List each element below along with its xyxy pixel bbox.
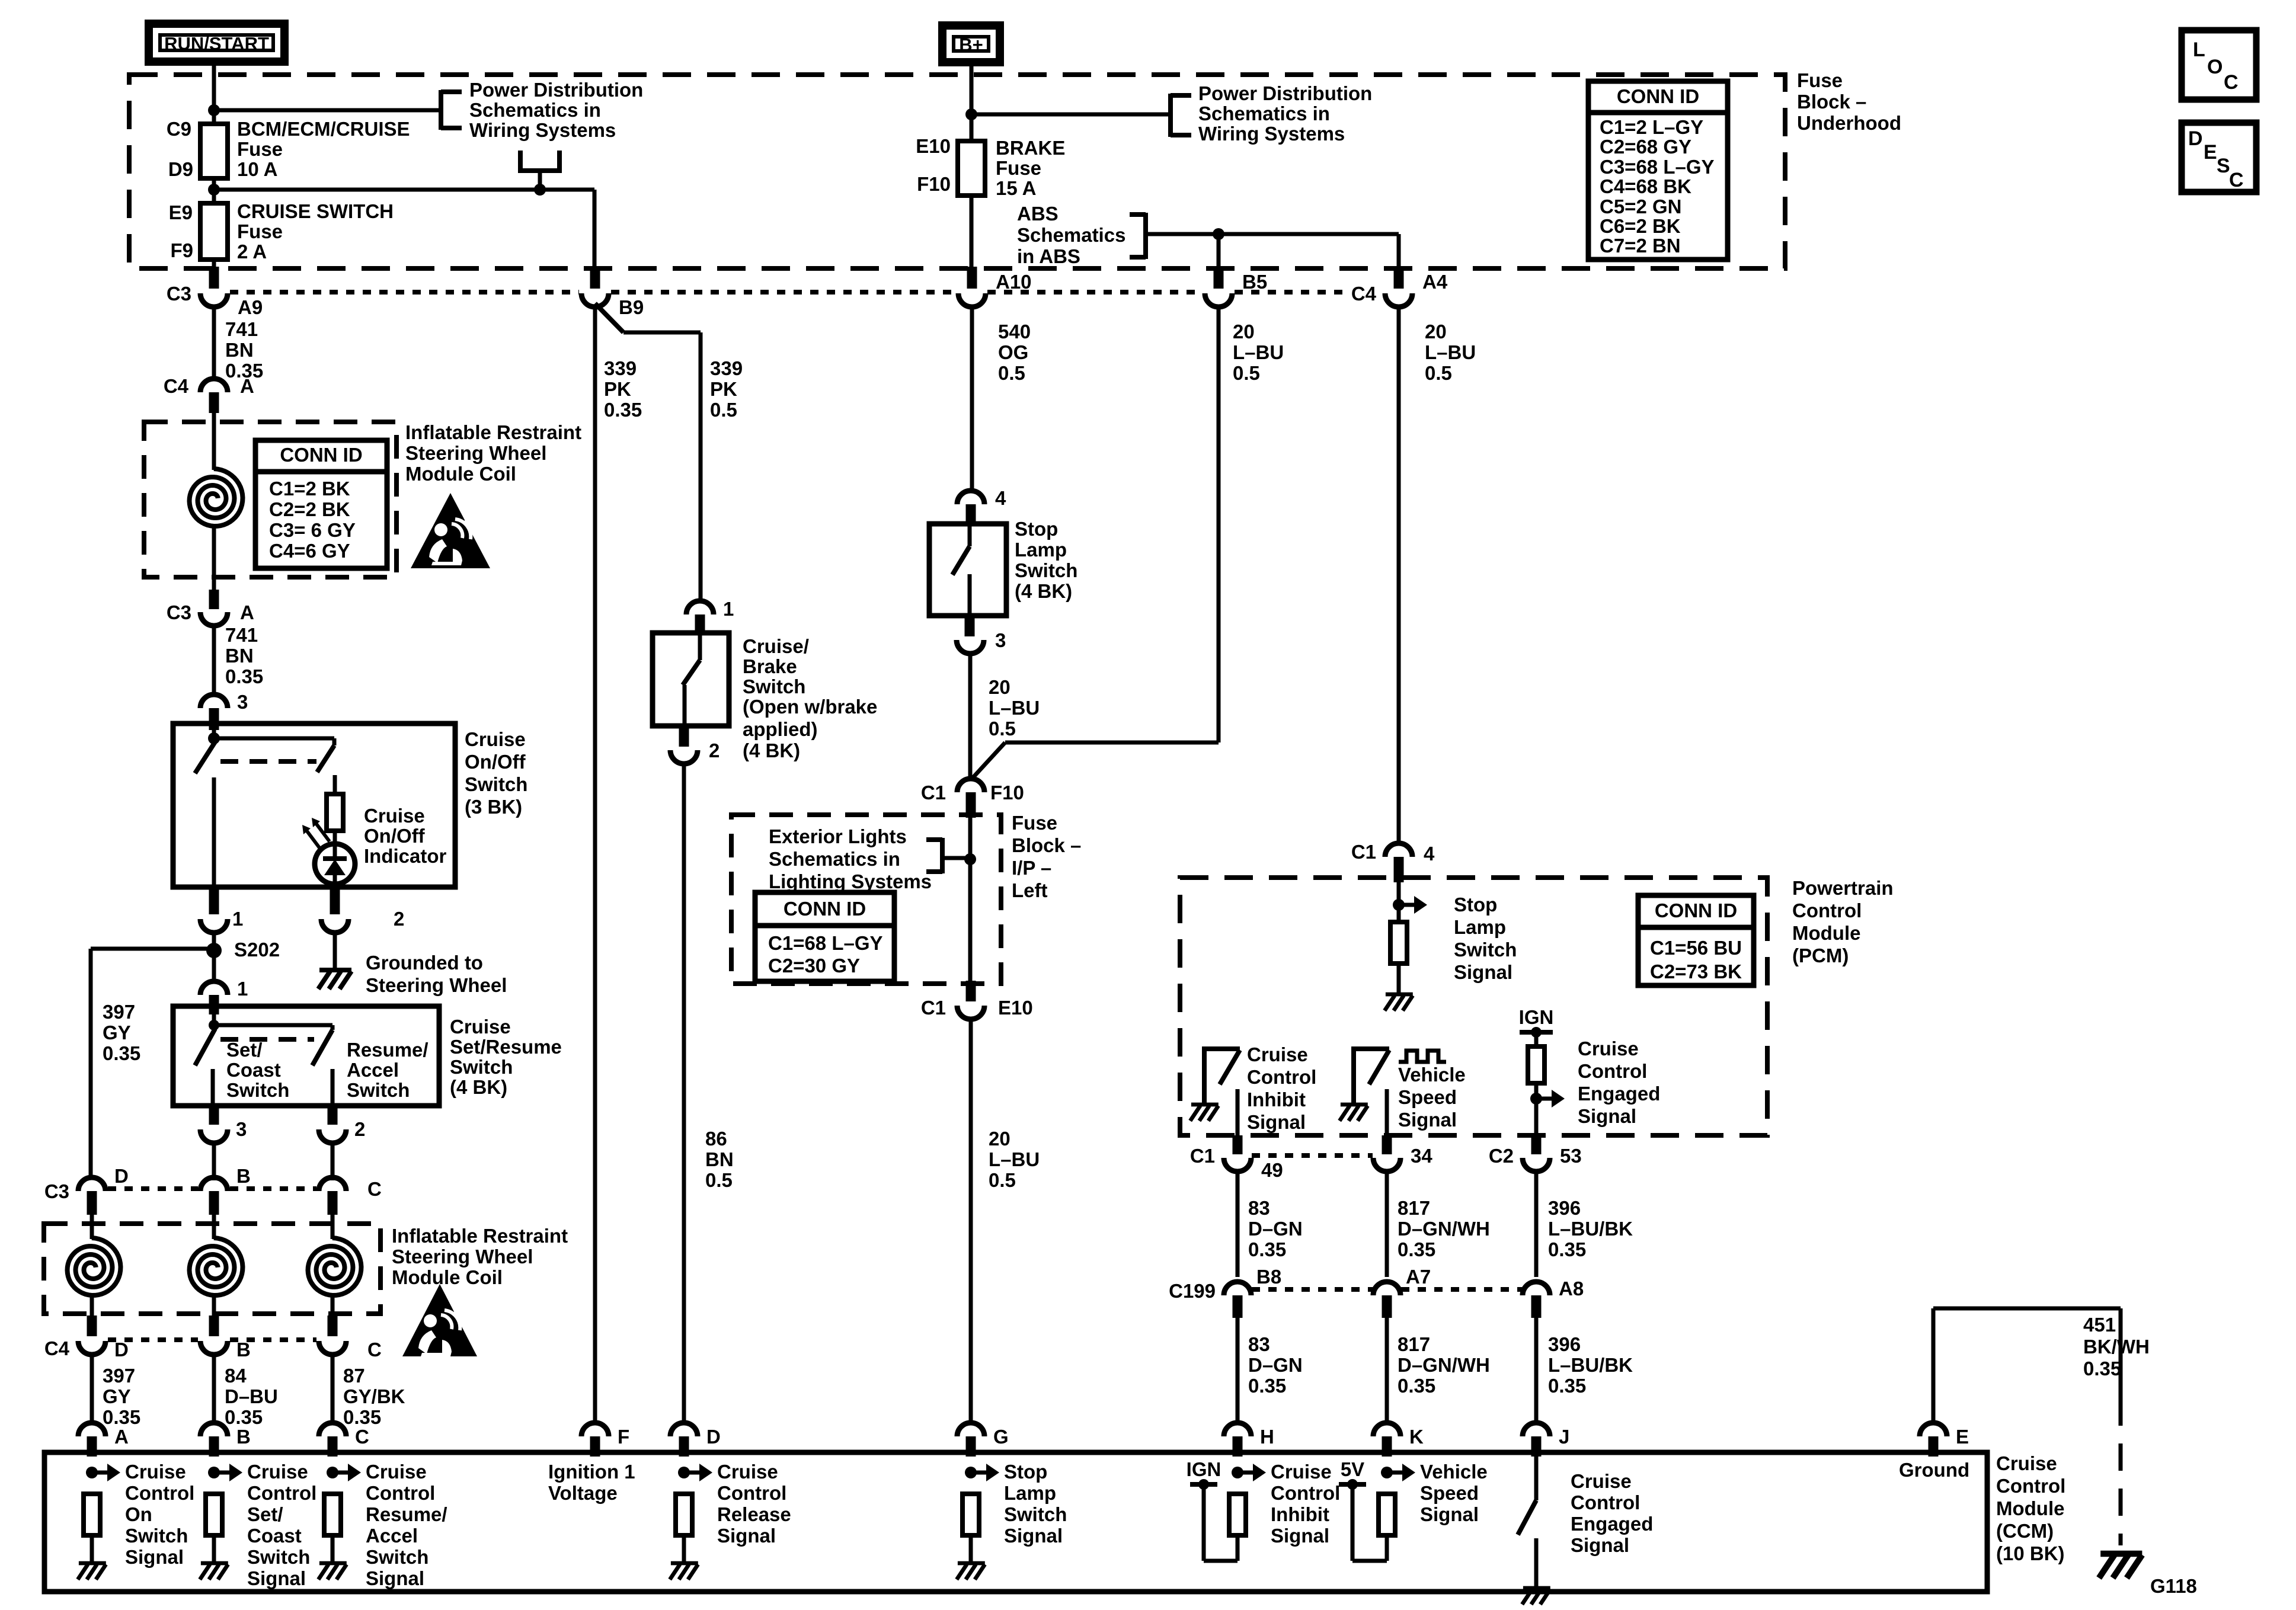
wire into set/resume bbox=[212, 1014, 216, 1026]
resistor PCM stop lamp bbox=[1390, 922, 1407, 964]
connector stub 3 stop lamp bbox=[965, 616, 975, 636]
connector stub C3-D bbox=[87, 1191, 97, 1215]
wire 86 BN to CCM D bbox=[682, 764, 686, 1425]
svg-text:Control: Control bbox=[1271, 1482, 1340, 1504]
connector stub F10 bbox=[966, 792, 976, 818]
wire IGN loop bottom bbox=[1204, 1559, 1237, 1563]
svg-text:C: C bbox=[2224, 71, 2239, 94]
node junction stop lamp signal bbox=[1393, 899, 1405, 911]
CCM cruise control set/coast switch signal circuit bbox=[208, 1467, 220, 1478]
svg-text:C: C bbox=[355, 1426, 369, 1448]
coil spiral right bbox=[308, 1238, 362, 1295]
svg-text:RUN/START: RUN/START bbox=[164, 33, 269, 54]
dotted connector line C4 row bbox=[108, 1337, 198, 1342]
connector stub C4-C bbox=[328, 1315, 338, 1336]
connector stub 2 (indicator) bbox=[330, 887, 340, 914]
svg-text:Inflatable Restraint: Inflatable Restraint bbox=[405, 421, 581, 443]
connector cup 2 (indicator) bbox=[321, 919, 348, 933]
resistor cruise indicator bbox=[327, 794, 343, 831]
svg-text:C: C bbox=[367, 1178, 382, 1200]
connector cup A10 bbox=[958, 293, 986, 307]
svg-text:PK: PK bbox=[710, 378, 737, 400]
svg-text:339: 339 bbox=[710, 357, 743, 379]
dotted connector line C3 row bbox=[108, 1186, 198, 1191]
connector stub CCM D bbox=[679, 1436, 689, 1457]
svg-text:Steering Wheel: Steering Wheel bbox=[392, 1246, 533, 1267]
svg-text:817: 817 bbox=[1398, 1333, 1430, 1355]
svg-text:0.35: 0.35 bbox=[604, 399, 642, 421]
svg-text:Fuse: Fuse bbox=[996, 157, 1041, 179]
wire 87 GY/BK to CCM C bbox=[331, 1355, 335, 1425]
svg-text:0.35: 0.35 bbox=[343, 1406, 381, 1428]
svg-text:Switch: Switch bbox=[1004, 1503, 1067, 1525]
wire B9 fork diagonal bbox=[595, 303, 623, 332]
svg-text:B+: B+ bbox=[959, 34, 983, 55]
svg-text:Resume/: Resume/ bbox=[366, 1503, 447, 1525]
svg-text:Cruise: Cruise bbox=[717, 1461, 778, 1483]
svg-text:Signal: Signal bbox=[247, 1567, 306, 1589]
svg-text:Control: Control bbox=[1571, 1491, 1640, 1513]
svg-text:Signal: Signal bbox=[1571, 1534, 1629, 1556]
wire 817 D-GN/WH lower bbox=[1385, 1318, 1389, 1425]
connector dome 3 (on/off switch) bbox=[200, 694, 228, 708]
svg-text:Fuse: Fuse bbox=[1012, 812, 1057, 834]
off-page reference bracket ABS bbox=[1143, 213, 1148, 259]
svg-text:2: 2 bbox=[354, 1118, 365, 1140]
cruise control module (CCM) box bbox=[44, 1452, 1987, 1592]
svg-text:Switch: Switch bbox=[366, 1546, 428, 1568]
LED cruise on/off indicator bbox=[315, 844, 355, 884]
svg-text:Switch: Switch bbox=[125, 1525, 188, 1547]
svg-text:D–GN/WH: D–GN/WH bbox=[1398, 1354, 1490, 1376]
connector stub 2 out bbox=[328, 1106, 338, 1125]
wire A10 down to stop lamp switch bbox=[970, 307, 974, 492]
svg-text:E9: E9 bbox=[169, 201, 193, 223]
connector stub C3/A bbox=[209, 590, 219, 609]
svg-text:CONN ID: CONN ID bbox=[784, 898, 866, 920]
ground PCM stop lamp bbox=[1386, 993, 1413, 997]
connector cup C4-C bbox=[319, 1341, 346, 1355]
svg-text:Cruise: Cruise bbox=[125, 1461, 186, 1483]
svg-text:Accel: Accel bbox=[347, 1059, 399, 1081]
node splice S202 bbox=[206, 943, 222, 958]
svg-text:Brake: Brake bbox=[743, 655, 797, 677]
svg-text:applied): applied) bbox=[743, 718, 818, 740]
wire 451 BK/WH dashed bbox=[2119, 1398, 2123, 1545]
svg-text:Steering Wheel: Steering Wheel bbox=[366, 974, 507, 996]
wire 84 D-BU to CCM B bbox=[212, 1355, 216, 1425]
svg-text:B: B bbox=[236, 1165, 251, 1187]
svg-text:3: 3 bbox=[237, 691, 248, 713]
svg-text:Cruise: Cruise bbox=[1247, 1044, 1308, 1065]
wire 451 BK/WH down bbox=[2119, 1308, 2123, 1398]
svg-text:E10: E10 bbox=[916, 135, 951, 157]
svg-text:Module: Module bbox=[1792, 922, 1860, 944]
switch blade resume/accel bbox=[312, 1030, 332, 1065]
DESC reference box bbox=[2182, 123, 2256, 192]
wire cup1 to S202 bbox=[212, 933, 216, 950]
svg-text:Inflatable Restraint: Inflatable Restraint bbox=[392, 1225, 568, 1247]
svg-text:Wiring Systems: Wiring Systems bbox=[469, 119, 616, 141]
svg-text:20: 20 bbox=[1425, 321, 1447, 343]
svg-text:(10 BK): (10 BK) bbox=[1996, 1542, 2065, 1564]
conn id table I/P bbox=[755, 892, 894, 981]
connector stub C3-C bbox=[328, 1191, 338, 1215]
node junction inhibit (CCM) bbox=[1232, 1467, 1243, 1478]
wire cruise engaged (CCM) bbox=[1534, 1457, 1539, 1500]
svg-text:Voltage: Voltage bbox=[548, 1482, 618, 1504]
CCM cruise control release signal circuit bbox=[678, 1467, 690, 1478]
svg-text:20: 20 bbox=[989, 1128, 1011, 1150]
svg-text:L–BU/BK: L–BU/BK bbox=[1548, 1354, 1633, 1376]
cruise on/off switch box bbox=[173, 724, 455, 887]
off-page reference bracket (Power Distribution) bbox=[439, 90, 443, 130]
coil spiral left bbox=[68, 1238, 121, 1295]
svg-text:Stop: Stop bbox=[1015, 518, 1058, 540]
connector stub CCM J bbox=[1531, 1436, 1542, 1457]
svg-text:451: 451 bbox=[2083, 1314, 2116, 1336]
switch blade on/off left bbox=[195, 742, 215, 773]
connector stub CCM E bbox=[1929, 1436, 1939, 1457]
connector dome 4 (stop lamp) bbox=[957, 491, 984, 504]
connector cup C4-D bbox=[78, 1341, 105, 1355]
svg-text:Control: Control bbox=[125, 1482, 194, 1504]
svg-text:C1=68 L–GY: C1=68 L–GY bbox=[768, 932, 883, 954]
svg-text:L–BU: L–BU bbox=[1425, 341, 1476, 363]
IGN feed bar (CCM) bbox=[1190, 1482, 1217, 1487]
wire set/coast output bbox=[211, 1069, 215, 1106]
svg-text:34: 34 bbox=[1411, 1145, 1432, 1167]
svg-text:C4: C4 bbox=[44, 1337, 70, 1359]
wire F10 fuse down to A10 bbox=[970, 196, 974, 273]
wire exterior lights tap bbox=[942, 856, 970, 860]
svg-text:C3=68 L–GY: C3=68 L–GY bbox=[1600, 156, 1715, 178]
svg-text:Signal: Signal bbox=[717, 1525, 776, 1547]
wire ABS reference feed bbox=[1146, 232, 1399, 236]
svg-text:GY/BK: GY/BK bbox=[343, 1385, 405, 1407]
svg-text:Signal: Signal bbox=[1247, 1111, 1306, 1133]
svg-text:D: D bbox=[2188, 127, 2203, 150]
connector dome CCM D bbox=[670, 1423, 698, 1436]
svg-text:Switch: Switch bbox=[347, 1079, 410, 1101]
svg-text:Control: Control bbox=[1578, 1060, 1647, 1082]
switch blade cruise engaged bbox=[1518, 1500, 1536, 1535]
connector cup 53 bbox=[1523, 1158, 1550, 1172]
connector stub 2 cruise/brake bbox=[679, 726, 689, 747]
svg-text:Cruise: Cruise bbox=[1578, 1038, 1639, 1060]
svg-text:C1: C1 bbox=[921, 997, 946, 1019]
svg-text:BCM/ECM/CRUISE: BCM/ECM/CRUISE bbox=[237, 118, 410, 140]
node junction exterior lights tap bbox=[964, 853, 976, 865]
connector cup B9 bbox=[581, 293, 609, 307]
svg-text:Schematics in: Schematics in bbox=[469, 99, 601, 121]
svg-text:GY: GY bbox=[103, 1385, 131, 1407]
svg-text:Vehicle: Vehicle bbox=[1420, 1461, 1488, 1483]
wire stop lamp lower contact bbox=[968, 574, 972, 616]
connector stub CCM G bbox=[966, 1436, 976, 1457]
svg-text:BN: BN bbox=[225, 645, 254, 667]
dotted connector line PCM row bbox=[1252, 1153, 1373, 1158]
svg-text:On: On bbox=[125, 1503, 152, 1525]
arrow stop lamp switch signal bbox=[1399, 903, 1414, 907]
wire B5 jog horizontal bbox=[1005, 741, 1219, 745]
connector dome C4/A bbox=[200, 379, 228, 392]
svg-text:(3 BK): (3 BK) bbox=[465, 796, 522, 818]
svg-text:Lamp: Lamp bbox=[1015, 539, 1067, 561]
svg-text:0.5: 0.5 bbox=[705, 1169, 733, 1191]
svg-text:C2: C2 bbox=[1489, 1145, 1514, 1167]
svg-text:0.5: 0.5 bbox=[1425, 362, 1452, 384]
connector stub 34 bbox=[1382, 1135, 1392, 1154]
ground cruise engaged (CCM) bbox=[1523, 1586, 1550, 1590]
wire 339 PK 0.5 down bbox=[699, 332, 703, 602]
svg-text:0.5: 0.5 bbox=[989, 1169, 1016, 1191]
svg-text:D: D bbox=[114, 1165, 129, 1187]
wire 5V loop bottom bbox=[1352, 1559, 1387, 1563]
svg-text:Stop: Stop bbox=[1454, 894, 1497, 916]
wire into cruise/brake switch bbox=[698, 635, 702, 660]
wire B5 jog diagonal bbox=[971, 742, 1005, 779]
svg-text:B9: B9 bbox=[619, 296, 644, 318]
node junction on/off feed bbox=[208, 732, 220, 744]
node junction below RUN/START bbox=[208, 104, 220, 116]
svg-text:Switch: Switch bbox=[226, 1079, 289, 1101]
svg-text:Signal: Signal bbox=[1454, 961, 1512, 983]
svg-text:Speed: Speed bbox=[1420, 1482, 1479, 1504]
svg-text:On/Off: On/Off bbox=[465, 751, 526, 773]
connector stub 1 cruise/brake bbox=[695, 614, 705, 635]
svg-text:D–BU: D–BU bbox=[225, 1385, 278, 1407]
svg-text:Engaged: Engaged bbox=[1571, 1513, 1653, 1535]
svg-text:49: 49 bbox=[1261, 1159, 1283, 1181]
svg-text:D–GN: D–GN bbox=[1248, 1354, 1303, 1376]
svg-text:B8: B8 bbox=[1256, 1266, 1281, 1288]
wire 396 L-BU/BK upper bbox=[1534, 1172, 1539, 1277]
connector cup E10 bbox=[957, 1006, 984, 1019]
svg-text:0.35: 0.35 bbox=[2083, 1358, 2121, 1379]
svg-text:Accel: Accel bbox=[366, 1525, 418, 1547]
svg-text:83: 83 bbox=[1248, 1333, 1270, 1355]
svg-text:4: 4 bbox=[1424, 843, 1435, 865]
switch blade cruise/brake bbox=[683, 660, 700, 685]
svg-text:C4: C4 bbox=[164, 375, 189, 397]
connector stub B8 bbox=[1233, 1295, 1243, 1318]
switch blade set/coast bbox=[195, 1029, 215, 1065]
svg-text:Fuse: Fuse bbox=[237, 220, 283, 242]
connector stub A7 bbox=[1382, 1295, 1392, 1318]
svg-text:397: 397 bbox=[103, 1001, 135, 1023]
arrow cruise control inhibit (CCM) bbox=[1237, 1471, 1253, 1475]
wire 397 GY to CCM A bbox=[90, 1355, 94, 1425]
svg-text:Switch: Switch bbox=[247, 1546, 310, 1568]
connector dome CCM K bbox=[1373, 1423, 1400, 1436]
svg-text:Switch: Switch bbox=[1015, 559, 1077, 581]
wire 83 D-GN lower bbox=[1236, 1318, 1240, 1425]
svg-text:2 A: 2 A bbox=[237, 241, 267, 263]
svg-text:S: S bbox=[2217, 155, 2230, 177]
svg-text:J: J bbox=[1559, 1426, 1569, 1448]
wire into coil module bbox=[212, 413, 216, 470]
svg-text:IGN: IGN bbox=[1187, 1458, 1221, 1480]
svg-text:83: 83 bbox=[1248, 1197, 1270, 1219]
svg-text:C5=2 GN: C5=2 GN bbox=[1600, 196, 1681, 217]
svg-text:C1: C1 bbox=[921, 782, 946, 804]
svg-text:Exterior Lights: Exterior Lights bbox=[769, 825, 907, 847]
wire feed to resume blade bbox=[214, 1023, 332, 1028]
svg-text:10 A: 10 A bbox=[237, 158, 277, 180]
connector stub CCM C bbox=[328, 1436, 338, 1457]
svg-text:Set/: Set/ bbox=[247, 1503, 283, 1525]
wire B5 down to jog bbox=[1217, 307, 1221, 742]
svg-text:I/P –: I/P – bbox=[1012, 857, 1051, 879]
connector stub PCM 4 bbox=[1394, 857, 1404, 882]
svg-text:Schematics: Schematics bbox=[1017, 224, 1125, 246]
connector cup 2 cruise/brake bbox=[670, 750, 698, 764]
node junction B5 tap bbox=[1213, 228, 1224, 240]
connector stub A10 bbox=[967, 267, 977, 289]
svg-text:Cruise: Cruise bbox=[364, 805, 425, 827]
svg-text:Cruise: Cruise bbox=[247, 1461, 308, 1483]
connector dome 1 (set/resume) bbox=[200, 981, 228, 995]
connector cup 49 bbox=[1224, 1158, 1251, 1172]
connector stub A4 bbox=[1394, 267, 1404, 289]
svg-text:741: 741 bbox=[225, 624, 258, 646]
off-page down-reference to wire bus bbox=[518, 151, 523, 171]
svg-text:Inhibit: Inhibit bbox=[1247, 1089, 1306, 1110]
warning triangle SIR 1 bbox=[411, 493, 490, 568]
wire E top horizontal bbox=[1933, 1307, 2121, 1311]
svg-text:5V: 5V bbox=[1341, 1458, 1364, 1480]
connector dome CCM H bbox=[1224, 1423, 1251, 1436]
svg-text:CONN ID: CONN ID bbox=[1655, 900, 1737, 921]
svg-text:0.35: 0.35 bbox=[103, 1406, 140, 1428]
wire engaged signal down bbox=[1534, 1083, 1539, 1138]
svg-text:Module Coil: Module Coil bbox=[392, 1266, 503, 1288]
svg-text:(Open w/brake: (Open w/brake bbox=[743, 696, 877, 718]
svg-text:Cruise: Cruise bbox=[450, 1016, 511, 1038]
svg-text:(4 BK): (4 BK) bbox=[743, 740, 800, 761]
svg-text:Cruise: Cruise bbox=[366, 1461, 427, 1483]
connector stub B5 bbox=[1214, 267, 1224, 289]
svg-text:Switch: Switch bbox=[465, 773, 527, 795]
svg-text:Left: Left bbox=[1012, 879, 1048, 901]
svg-text:C4: C4 bbox=[1351, 283, 1377, 305]
connector dome CCM C bbox=[319, 1423, 346, 1436]
connector stub CCM H bbox=[1233, 1436, 1243, 1457]
svg-text:3: 3 bbox=[236, 1118, 247, 1140]
svg-text:Resume/: Resume/ bbox=[347, 1039, 428, 1061]
coil spiral top bbox=[190, 469, 243, 526]
svg-text:CONN ID: CONN ID bbox=[1617, 85, 1699, 107]
svg-text:Indicator: Indicator bbox=[364, 845, 447, 867]
connector dome C199-A7 bbox=[1373, 1282, 1400, 1295]
connector cup B5 bbox=[1205, 293, 1232, 307]
svg-text:0.35: 0.35 bbox=[103, 1042, 140, 1064]
coil spiral mid bbox=[190, 1238, 243, 1295]
svg-text:C3: C3 bbox=[167, 283, 191, 305]
svg-text:Schematics in: Schematics in bbox=[1198, 103, 1330, 124]
svg-text:D9: D9 bbox=[168, 158, 193, 180]
svg-text:20: 20 bbox=[989, 676, 1011, 698]
svg-text:A9: A9 bbox=[238, 296, 263, 318]
svg-text:C1: C1 bbox=[1351, 841, 1376, 863]
5V feed bar (CCM) bbox=[1339, 1482, 1366, 1487]
svg-text:C4=6 GY: C4=6 GY bbox=[269, 540, 350, 562]
warning triangle SIR 2 bbox=[402, 1284, 477, 1356]
svg-text:BRAKE: BRAKE bbox=[996, 137, 1065, 159]
svg-text:On/Off: On/Off bbox=[364, 825, 426, 847]
wire 2 to C3-C bbox=[331, 1143, 335, 1180]
svg-text:Lighting Systems: Lighting Systems bbox=[769, 870, 932, 892]
connector stub CCM K bbox=[1382, 1436, 1392, 1457]
ganged switch dashed link bbox=[220, 759, 316, 764]
wire B+ to power distribution reference bbox=[971, 113, 1171, 117]
svg-text:(CCM): (CCM) bbox=[1996, 1520, 2054, 1542]
wire resistor to LED bbox=[333, 831, 337, 844]
svg-text:S202: S202 bbox=[234, 939, 280, 961]
svg-text:Control: Control bbox=[1996, 1475, 2065, 1497]
svg-text:C3: C3 bbox=[44, 1180, 69, 1202]
connector stub 1 bbox=[209, 887, 219, 914]
svg-text:IGN: IGN bbox=[1519, 1006, 1554, 1028]
wire B+ down bbox=[970, 66, 974, 141]
svg-text:E10: E10 bbox=[998, 997, 1033, 1019]
wire D into coil box bbox=[90, 1215, 94, 1239]
svg-text:C2=2 BK: C2=2 BK bbox=[269, 498, 350, 520]
svg-text:Switch: Switch bbox=[450, 1056, 513, 1078]
svg-text:C4=68 BK: C4=68 BK bbox=[1600, 175, 1691, 197]
svg-text:Signal: Signal bbox=[366, 1567, 424, 1589]
svg-text:A8: A8 bbox=[1559, 1278, 1584, 1299]
wire bus to B9 column bbox=[214, 188, 594, 192]
svg-text:C199: C199 bbox=[1169, 1280, 1216, 1302]
svg-text:Grounded to: Grounded to bbox=[366, 952, 483, 974]
svg-text:C3= 6 GY: C3= 6 GY bbox=[269, 519, 356, 541]
wire between fuses bbox=[212, 178, 216, 206]
svg-text:Switch: Switch bbox=[1454, 939, 1517, 961]
connector dome C199-A8 bbox=[1523, 1282, 1550, 1295]
node junction set/resume feed bbox=[209, 1020, 219, 1030]
resistor inhibit (CCM) bbox=[1229, 1494, 1246, 1535]
svg-text:F9: F9 bbox=[170, 239, 193, 261]
svg-text:396: 396 bbox=[1548, 1333, 1581, 1355]
svg-text:Coast: Coast bbox=[247, 1525, 302, 1547]
wire 83 D-GN upper bbox=[1236, 1172, 1240, 1277]
wire resistor to ground (PCM) bbox=[1397, 964, 1401, 993]
svg-text:C1=56 BU: C1=56 BU bbox=[1650, 937, 1742, 959]
svg-text:53: 53 bbox=[1560, 1145, 1582, 1167]
conn id table PCM bbox=[1638, 895, 1754, 985]
svg-text:Set/Resume: Set/Resume bbox=[450, 1036, 562, 1058]
svg-text:Cruise: Cruise bbox=[1571, 1470, 1632, 1492]
wire A4 branch down bbox=[1397, 234, 1401, 273]
svg-text:1: 1 bbox=[723, 598, 734, 620]
fuse E9/F9 CRUISE SWITCH 2A bbox=[200, 203, 228, 260]
wire inhibit resistor bottom bbox=[1236, 1535, 1240, 1561]
square wave symbol bbox=[1399, 1051, 1446, 1062]
powertrain control module dashed box bbox=[1180, 878, 1767, 1135]
svg-text:L–BU: L–BU bbox=[989, 697, 1040, 719]
svg-text:H: H bbox=[1260, 1426, 1274, 1448]
svg-text:Signal: Signal bbox=[125, 1546, 184, 1568]
svg-text:L–BU: L–BU bbox=[989, 1148, 1040, 1170]
fuse C9/D9 BCM/ECM/CRUISE 10A bbox=[200, 124, 228, 178]
connector dome CCM J bbox=[1523, 1423, 1550, 1436]
svg-text:C2=73 BK: C2=73 BK bbox=[1650, 961, 1742, 982]
ganged link set/resume bbox=[220, 1037, 314, 1042]
svg-text:F10: F10 bbox=[990, 782, 1024, 804]
connector stub C4-B bbox=[209, 1315, 219, 1336]
